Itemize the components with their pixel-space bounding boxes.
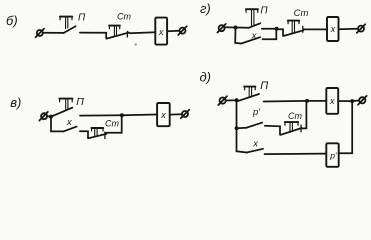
wire xyxy=(80,33,106,39)
terminal right (fig б) xyxy=(178,26,186,35)
relay coil x (fig в) xyxy=(157,103,170,126)
wire xyxy=(43,32,64,34)
svg-text:Ст: Ст xyxy=(105,118,119,128)
svg-text:б): б) xyxy=(6,13,18,28)
junction node (fig в) xyxy=(49,115,53,119)
wire (middle branch, fig д) xyxy=(237,127,247,129)
wire xyxy=(265,126,280,135)
contact x NO (fig в) xyxy=(63,127,76,132)
svg-text:П: П xyxy=(76,96,84,108)
wire xyxy=(278,29,283,36)
relay coil x (fig д) xyxy=(326,88,338,114)
pushbutton П NO (fig б) xyxy=(60,17,76,33)
svg-text:Ст: Ст xyxy=(288,111,302,121)
terminal left (fig г) xyxy=(217,24,225,33)
wire xyxy=(304,28,327,30)
wire xyxy=(80,114,122,116)
relay coil Р' (fig д) xyxy=(326,143,338,167)
wire xyxy=(262,28,275,30)
wire xyxy=(307,100,326,102)
svg-text:Ст: Ст xyxy=(117,11,131,21)
terminal left (fig д) xyxy=(218,96,227,105)
svg-text:г): г) xyxy=(200,1,211,16)
wire (right bus, fig д) xyxy=(339,101,352,153)
pushbutton П NO (fig г) xyxy=(246,9,260,28)
wire xyxy=(226,99,237,101)
wire xyxy=(338,100,350,102)
junction node (fig в) xyxy=(120,113,124,117)
terminal right (fig д) xyxy=(358,96,367,105)
pushbutton П NO (fig д) xyxy=(239,87,259,101)
wire (up to node, fig г) xyxy=(263,29,277,39)
svg-text:x: x xyxy=(160,110,166,120)
relay coil x (fig г) xyxy=(327,17,339,41)
wire xyxy=(80,131,88,138)
relay coil x (fig б) xyxy=(155,18,167,45)
svg-text:р': р' xyxy=(329,151,337,161)
wire xyxy=(130,32,156,33)
svg-text:в): в) xyxy=(10,95,21,110)
terminal right (fig в) xyxy=(181,110,189,119)
terminal left (fig в) xyxy=(39,112,47,121)
wire (branch down, fig г) xyxy=(235,28,241,44)
svg-text:x: x xyxy=(66,117,73,128)
wire xyxy=(167,30,179,32)
wire (branch down from left node, fig в) xyxy=(51,117,63,132)
wire (left bus, fig д) xyxy=(236,100,238,151)
wire (bottom branch, fig д) xyxy=(237,151,247,152)
svg-text:x: x xyxy=(330,24,336,34)
svg-text:x: x xyxy=(251,30,258,41)
svg-text:р': р' xyxy=(252,107,261,118)
terminal right (fig г) xyxy=(357,24,365,33)
pushbutton Ст NC (fig в) xyxy=(89,128,107,139)
wire xyxy=(225,26,235,28)
pushbutton Ст NC (fig г) xyxy=(284,21,304,36)
svg-text:П: П xyxy=(260,80,268,92)
junction node (fig г) xyxy=(275,27,279,31)
junction node (fig д, left bus top) xyxy=(235,98,239,102)
svg-text:x: x xyxy=(158,27,164,37)
wire xyxy=(47,115,51,117)
junction node (fig г) xyxy=(234,26,238,30)
wire (up to node, fig д) xyxy=(302,101,306,128)
svg-text:Ст: Ст xyxy=(294,8,309,19)
pushbutton П NO (fig в) xyxy=(52,99,72,117)
contact x NO (fig д) xyxy=(247,149,263,153)
svg-text:П: П xyxy=(78,12,86,23)
pushbutton Ст NC (fig б) xyxy=(107,26,129,39)
wire xyxy=(236,27,249,29)
junction node (fig д, right bus top) xyxy=(350,99,354,103)
wire xyxy=(122,114,157,117)
wire xyxy=(264,100,307,103)
wire xyxy=(170,113,182,115)
svg-text:д): д) xyxy=(200,70,212,85)
pushbutton Ст NC (fig д) xyxy=(281,122,302,135)
junction node (fig д, left bus middle) xyxy=(235,126,239,130)
wire xyxy=(265,153,327,156)
wire (up to node, fig в) xyxy=(106,115,121,132)
terminal left (fig б) xyxy=(36,29,44,38)
svg-text:x: x xyxy=(329,96,335,106)
junction node (fig д, before coil) xyxy=(305,99,309,103)
svg-text:П: П xyxy=(260,5,268,16)
contact Р' NO (fig д) xyxy=(247,123,262,128)
contact x NO (fig г) xyxy=(241,37,260,43)
scan speck xyxy=(135,43,137,45)
wire xyxy=(354,100,359,102)
wire xyxy=(339,28,358,31)
svg-text:x: x xyxy=(252,139,259,150)
